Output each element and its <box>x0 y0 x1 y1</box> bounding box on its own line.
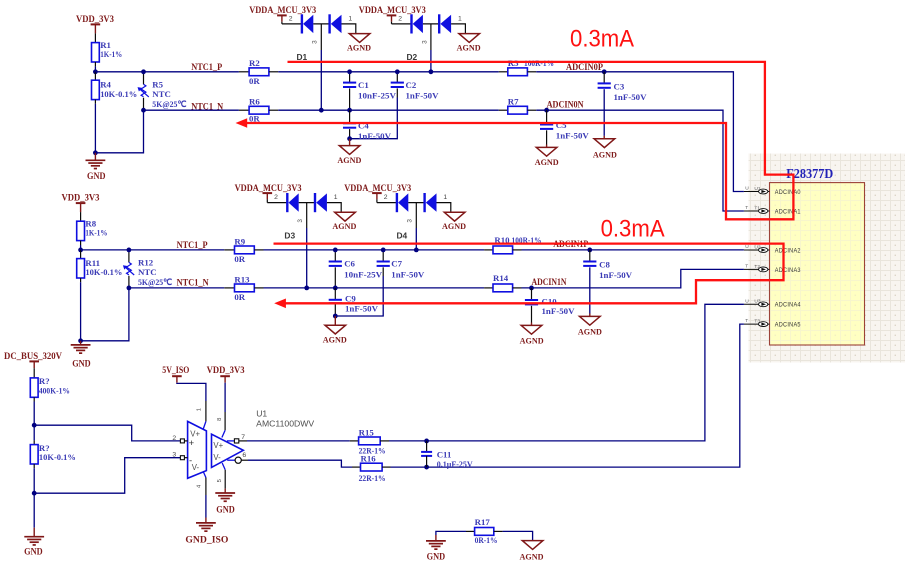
svg-text:GND: GND <box>427 551 446 561</box>
resistor R4 <box>94 72 96 80</box>
svg-text:NTC: NTC <box>138 267 157 277</box>
svg-text:2: 2 <box>398 16 402 23</box>
svg-text:AMC1100DWV: AMC1100DWV <box>256 418 314 428</box>
svg-text:3: 3 <box>172 452 176 459</box>
svg-text:10K-0.1%: 10K-0.1% <box>39 452 76 462</box>
svg-text:1nF-50V: 1nF-50V <box>614 92 648 102</box>
svg-text:VDD_3V3: VDD_3V3 <box>207 366 245 376</box>
annotation red loop 2 (ADCIN1 current path) <box>274 244 784 304</box>
svg-text:1K-1%: 1K-1% <box>100 49 122 59</box>
svg-text:5K@25℃: 5K@25℃ <box>152 99 186 109</box>
svg-text:T2: T2 <box>754 264 760 270</box>
capacitor C2 <box>396 72 398 83</box>
svg-text:T3: T3 <box>754 319 760 325</box>
wire R? to node B <box>33 464 35 468</box>
svg-text:+: + <box>189 438 195 449</box>
svg-text:NTC1_N: NTC1_N <box>177 279 209 289</box>
resistor R14 <box>484 287 493 289</box>
ground AGND (C9) <box>334 316 336 325</box>
resistor R3 <box>499 71 508 73</box>
wire C7 bottom to C9 bottom <box>335 276 383 316</box>
wire R11 to GND <box>80 278 82 282</box>
wire bottom loop row2 <box>81 288 129 341</box>
svg-text:1nF-50V: 1nF-50V <box>556 131 590 141</box>
junction ADCIN0N / C5 <box>544 108 549 113</box>
svg-text:U1: U1 <box>754 186 760 192</box>
junction R16/C11 <box>424 465 429 470</box>
svg-text:0R: 0R <box>234 292 245 302</box>
junction (R12 top) <box>126 248 131 253</box>
junction D1/NTC1_N <box>319 108 324 113</box>
svg-text:1nF-50V: 1nF-50V <box>358 131 392 141</box>
svg-text:1nF-50V: 1nF-50V <box>345 304 379 314</box>
wire NTC1_N mid row1 <box>278 109 499 111</box>
wire ADCIN0N to chip <box>536 110 744 211</box>
svg-text:AGND: AGND <box>347 42 371 52</box>
svg-text:T1: T1 <box>754 205 760 211</box>
junction D3/NTC1_N <box>304 286 309 291</box>
svg-text:2: 2 <box>289 16 293 23</box>
svg-text:0.1µF-25V: 0.1µF-25V <box>437 459 474 469</box>
capacitor C4 <box>349 110 351 123</box>
svg-text:VDD_3V3: VDD_3V3 <box>62 194 100 204</box>
wire R8 to node <box>80 241 82 245</box>
svg-text:AGND: AGND <box>442 221 466 231</box>
svg-text:1nF-50V: 1nF-50V <box>542 306 576 316</box>
junction node B <box>32 491 37 496</box>
wire VDD_3V3 to R1 <box>94 33 96 42</box>
svg-text:ADCINA2: ADCINA2 <box>775 247 801 254</box>
resistor R11 <box>80 250 82 259</box>
resistor R10 <box>484 249 493 251</box>
resistor R1 <box>92 43 100 62</box>
wire D4 centre to NTC1_P (row2) <box>415 203 417 228</box>
svg-text:8: 8 <box>217 418 223 421</box>
wire R16 to chip ADCINA5 <box>391 324 744 467</box>
junction (R8/R11) <box>78 248 83 253</box>
pin 6 bubble (U1) <box>227 459 235 461</box>
svg-text:7: 7 <box>241 434 245 441</box>
ground AGND (C8) <box>589 314 591 317</box>
capacitor C1 <box>349 72 351 83</box>
wire U1 pin5 to GND <box>222 463 225 470</box>
ground GND (U1) <box>215 492 235 494</box>
svg-text:10nF-25V: 10nF-25V <box>358 91 397 101</box>
wire 5V_ISO to U1 pin1 <box>177 383 206 401</box>
svg-text:AGND: AGND <box>535 157 559 167</box>
pin 2 pad (U1) <box>184 440 187 442</box>
svg-text:GND_ISO: GND_ISO <box>185 535 228 545</box>
svg-text:1: 1 <box>197 408 203 411</box>
wire R17 to AGND <box>503 531 533 540</box>
svg-text:AGND: AGND <box>520 551 544 561</box>
svg-text:AGND: AGND <box>332 221 356 231</box>
ground AGND (C5) <box>546 145 548 148</box>
MCU U2 F28377D body <box>770 183 865 345</box>
svg-text:1: 1 <box>458 16 462 23</box>
svg-text:R5: R5 <box>152 80 163 90</box>
svg-text:T: T <box>745 263 748 269</box>
wire node B to GND <box>33 493 35 528</box>
pin ADCINA3 of U1 F28377D <box>744 268 770 270</box>
wire bottom loop row1 <box>95 110 143 153</box>
wire VDD_3V3 to U1 pin8 <box>224 383 226 412</box>
svg-text:ADCINA5: ADCINA5 <box>775 322 801 329</box>
ground GND (DC bus) <box>33 528 35 537</box>
svg-text:0R: 0R <box>234 254 245 264</box>
ground GND_ISO <box>205 518 207 523</box>
resistor R7 <box>499 109 508 111</box>
svg-text:400K-1%: 400K-1% <box>39 385 70 395</box>
svg-text:3: 3 <box>407 219 414 223</box>
pin 3 pad (U1) <box>184 457 187 459</box>
junction R15/C11 <box>424 439 429 444</box>
wire GND to R17 <box>436 531 466 535</box>
capacitor C7 <box>382 250 384 262</box>
svg-text:D1: D1 <box>297 52 308 62</box>
svg-text:2: 2 <box>172 435 176 442</box>
junction node A (divider tap) <box>32 423 37 428</box>
pin ADCINA1 of U1 F28377D <box>744 210 770 212</box>
svg-text:5K@25℃: 5K@25℃ <box>138 277 172 287</box>
svg-text:1: 1 <box>334 194 338 201</box>
svg-text:C9: C9 <box>345 294 356 304</box>
wire NTC1_N mid row2 <box>264 287 485 289</box>
wire ADCIN0P to chip <box>536 72 744 192</box>
svg-text:GND: GND <box>24 547 43 557</box>
svg-text:3: 3 <box>312 40 319 44</box>
svg-text:AGND: AGND <box>457 42 481 52</box>
wire D1 centre to NTC1_N <box>320 24 322 50</box>
junction C6 bottom <box>333 286 338 291</box>
thermistor R5 NTC <box>143 72 145 85</box>
capacitor C9 <box>334 288 336 300</box>
resistor R? (400K) <box>30 378 38 397</box>
resistor R? (10K) <box>33 425 35 444</box>
wire NTC1_P mid row2 <box>264 249 485 251</box>
svg-text:GND: GND <box>216 505 235 515</box>
svg-text:R7: R7 <box>508 96 519 106</box>
svg-text:2: 2 <box>384 194 388 201</box>
svg-text:ADCIN1P: ADCIN1P <box>553 240 588 250</box>
svg-text:ADCIN0N: ADCIN0N <box>547 101 584 111</box>
svg-text:AGND: AGND <box>578 326 602 336</box>
junction C9/C7 bottom <box>333 314 338 319</box>
resistor R9 <box>224 249 234 251</box>
capacitor C3 <box>603 72 605 84</box>
svg-text:AGND: AGND <box>337 155 361 165</box>
ground AGND (C10) <box>531 323 533 326</box>
svg-text:AGND: AGND <box>323 335 347 345</box>
svg-text:T: T <box>745 318 748 324</box>
ground GND (R17) <box>426 540 446 542</box>
op-amp U1 output stage <box>212 434 244 467</box>
svg-text:2: 2 <box>274 194 278 201</box>
wire NTC1_N row1 <box>144 109 239 111</box>
wire U1 pin4 to GND_ISO <box>203 472 206 478</box>
ground AGND (C3) <box>603 136 605 139</box>
junction (R1/R4/NTC1_P) <box>93 69 98 74</box>
junction (R4/GND/loop) <box>93 150 98 155</box>
svg-text:0R-1%: 0R-1% <box>475 535 498 545</box>
capacitor C10 <box>531 288 533 300</box>
svg-text:R17: R17 <box>475 517 491 527</box>
wire VDD_3V3 to R8 <box>80 212 82 221</box>
svg-text:5: 5 <box>217 479 223 482</box>
svg-text:10nF-25V: 10nF-25V <box>344 269 383 279</box>
svg-text:VDD_3V3: VDD_3V3 <box>76 15 114 25</box>
svg-text:C6: C6 <box>344 259 355 269</box>
svg-text:1: 1 <box>348 16 352 23</box>
resistor R17 <box>466 530 475 532</box>
svg-text:U3: U3 <box>754 299 760 305</box>
junction ADCIN1N / C10 <box>529 286 534 291</box>
svg-text:V-: V- <box>213 453 221 462</box>
svg-text:6: 6 <box>242 452 246 459</box>
wire D2 centre to NTC1_P <box>430 24 432 50</box>
svg-text:10K-0.1%: 10K-0.1% <box>100 89 137 99</box>
svg-text:V-: V- <box>192 463 200 472</box>
capacitor C8 <box>589 250 591 262</box>
svg-text:AGND: AGND <box>520 335 544 345</box>
wire DC_BUS to R? <box>33 368 35 378</box>
wire NTC1_N row2 <box>129 287 224 289</box>
svg-text:3: 3 <box>421 40 428 44</box>
svg-text:1nF-50V: 1nF-50V <box>599 270 633 280</box>
svg-text:1nF-50V: 1nF-50V <box>391 269 425 279</box>
svg-text:ADCINA4: ADCINA4 <box>775 302 801 309</box>
svg-text:0.3mA: 0.3mA <box>570 26 635 53</box>
wire node B to U1 pin3 <box>34 458 180 494</box>
junction (R12 bottom) <box>126 286 131 291</box>
svg-text:1K-1%: 1K-1% <box>85 228 107 238</box>
wire NTC1_P row2 <box>81 249 225 251</box>
resistor R6 <box>239 109 249 111</box>
resistor R8 <box>77 221 85 240</box>
svg-text:R16: R16 <box>361 453 377 463</box>
svg-text:GND: GND <box>72 359 91 369</box>
junction C6 top <box>333 248 338 253</box>
junction (R11/GND row2) <box>78 338 83 343</box>
resistor R13 <box>224 287 234 289</box>
capacitor C5 <box>546 110 548 124</box>
svg-text:-: - <box>189 456 192 467</box>
svg-text:U: U <box>745 186 749 192</box>
thermistor R12 NTC <box>128 250 130 263</box>
resistor R2 <box>239 71 249 73</box>
wire D3 centre to NTC1_N (row2) <box>306 203 308 228</box>
ground GND (row2) <box>80 341 82 345</box>
wire R1 to node NTC1_P <box>94 62 96 66</box>
svg-text:U: U <box>745 298 749 304</box>
svg-text:1: 1 <box>443 194 447 201</box>
svg-text:C11: C11 <box>437 449 452 459</box>
pin ADCINA5 of U1 F28377D <box>744 323 770 325</box>
capacitor C11 <box>426 441 428 452</box>
junction D2/NTC1_P <box>429 69 434 74</box>
wire C2 bottom to C4 bottom <box>350 98 398 139</box>
svg-text:22R-1%: 22R-1% <box>359 473 386 483</box>
wire NTC1_P row1 <box>95 71 239 73</box>
wire U1 pin7 to R15 <box>247 440 350 442</box>
svg-text:3: 3 <box>297 219 304 223</box>
grid background region <box>749 154 905 363</box>
ground AGND (R17) <box>522 541 543 550</box>
svg-text:T: T <box>745 205 748 211</box>
junction ADCIN0P / C3 <box>602 69 607 74</box>
svg-text:ADCINA3: ADCINA3 <box>775 267 801 274</box>
svg-text:C5: C5 <box>556 120 567 130</box>
junction C7 top <box>381 248 386 253</box>
ground AGND (C4) <box>349 139 351 146</box>
svg-text:ADCIN1N: ADCIN1N <box>532 278 567 288</box>
wire R15 to chip ADCINA4 <box>389 304 744 441</box>
junction (R5 bottom) <box>141 108 146 113</box>
svg-text:C8: C8 <box>599 260 610 270</box>
svg-text:ADCINA1: ADCINA1 <box>775 208 801 215</box>
wire U1 pin6 to R16 <box>248 460 352 467</box>
junction C1 bottom <box>347 108 352 113</box>
junction C1 top <box>347 69 352 74</box>
svg-text:D3: D3 <box>284 230 295 240</box>
svg-text:ADCINA0: ADCINA0 <box>775 189 801 196</box>
svg-text:U2: U2 <box>754 244 760 250</box>
junction C2 top <box>395 69 400 74</box>
wire R? to node A <box>33 397 35 401</box>
svg-text:D4: D4 <box>397 230 408 240</box>
svg-text:R9: R9 <box>234 236 245 246</box>
wire node A to U1 pin2 <box>34 425 180 441</box>
junction C4/C2 bottom <box>347 136 352 141</box>
svg-text:10K-0.1%: 10K-0.1% <box>85 267 122 277</box>
capacitor C6 <box>334 250 336 262</box>
svg-text:V+: V+ <box>213 441 223 450</box>
svg-text:R6: R6 <box>249 97 260 107</box>
wire ADCIN1P to chip <box>522 249 744 251</box>
pin ADCINA0 of U1 F28377D <box>744 191 770 193</box>
ground GND (row1) <box>94 153 96 161</box>
svg-text:GND: GND <box>87 171 106 181</box>
svg-text:NTC1_N: NTC1_N <box>191 103 223 113</box>
svg-text:NTC: NTC <box>152 89 171 99</box>
svg-text:C7: C7 <box>391 259 402 269</box>
resistor R16 <box>352 466 361 468</box>
svg-text:U1: U1 <box>256 408 267 418</box>
wire ADCIN1N to chip <box>522 269 744 288</box>
svg-text:AGND: AGND <box>593 149 617 159</box>
wire NTC1_P mid row1 <box>278 71 499 73</box>
svg-text:0R: 0R <box>249 76 260 86</box>
svg-text:D2: D2 <box>407 52 418 62</box>
svg-text:1nF-50V: 1nF-50V <box>406 91 440 101</box>
op-amp U1 input stage <box>188 421 207 478</box>
svg-text:C3: C3 <box>614 82 625 92</box>
pin ADCINA4 of U1 F28377D <box>744 303 770 305</box>
junction D4/NTC1_P <box>414 248 419 253</box>
svg-text:5V_ISO: 5V_ISO <box>162 366 189 376</box>
annotation red loop 1 (ADCIN0 current path) <box>247 62 794 219</box>
svg-text:C1: C1 <box>358 80 369 90</box>
svg-text:C10: C10 <box>542 297 558 307</box>
junction ADCIN1P / C8 <box>587 248 592 253</box>
svg-text:C2: C2 <box>406 80 417 90</box>
pin 7 pad (U1) <box>227 440 235 442</box>
svg-text:R2: R2 <box>249 58 260 68</box>
svg-text:0.3mA: 0.3mA <box>601 216 666 243</box>
pin ADCINA2 of U1 F28377D <box>744 249 770 251</box>
wire R4 to GND <box>94 100 96 104</box>
junction (R5 top) <box>141 69 146 74</box>
resistor R15 <box>350 440 359 442</box>
svg-text:U: U <box>745 244 749 250</box>
svg-text:R13: R13 <box>234 274 250 284</box>
svg-text:R14: R14 <box>493 273 509 283</box>
svg-text:R15: R15 <box>359 427 375 437</box>
svg-text:R12: R12 <box>138 258 154 268</box>
